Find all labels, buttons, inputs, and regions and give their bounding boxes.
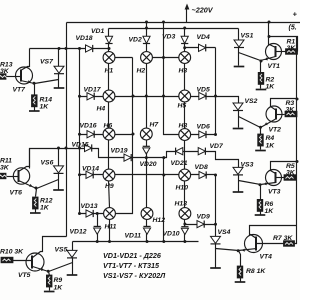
wire VT4 emitter — [239, 249, 257, 251]
wire H11 to bottom bus — [109, 220, 111, 242]
wire VS5 cathode — [72, 258, 74, 275]
node VD10 bus — [183, 240, 186, 243]
svg-text:VD15: VD15 — [72, 142, 89, 149]
lamp H8 — [179, 129, 191, 141]
wire R6 ground lead — [260, 212, 262, 215]
wire VD17 row — [80, 96, 104, 98]
diode VD16 — [87, 131, 94, 138]
svg-text:VD21: VD21 — [171, 160, 188, 167]
lamp H3 — [179, 52, 191, 64]
svg-text:VD18: VD18 — [76, 35, 93, 42]
diode VD14 — [86, 171, 93, 178]
wire H9-H11 — [109, 181, 110, 208]
lamp H4 — [103, 90, 115, 102]
thyristor VS5 — [67, 250, 77, 258]
wire VD9 row — [185, 224, 216, 226]
node VT2 emitter junction — [259, 126, 262, 129]
wire left distribution bus — [79, 49, 81, 214]
wire bottom return bus — [73, 241, 199, 243]
wire second feed bus — [109, 28, 239, 30]
svg-text:R10 3K: R10 3K — [0, 249, 24, 256]
svg-text:1K: 1K — [40, 205, 50, 212]
wire VS1 cathode — [238, 48, 240, 66]
wire VS7 gate — [35, 80, 59, 84]
wire R12 ground lead — [35, 209, 37, 213]
node VT3 emitter junction — [259, 183, 262, 186]
wire VD10 to bus — [184, 234, 186, 242]
svg-text:H4: H4 — [97, 106, 106, 113]
transistor VT2 — [266, 106, 282, 122]
wire jog to VD21-VD7 row — [147, 152, 239, 168]
wire VS3 gate — [239, 181, 261, 185]
node VT7 emitter junction — [33, 82, 36, 85]
svg-text:H11: H11 — [105, 224, 117, 231]
wire H4-H5 row link — [115, 96, 179, 98]
thyristor VS3 — [233, 167, 243, 175]
diode VD8 — [199, 171, 206, 178]
node VS7 anode junction — [58, 47, 61, 50]
svg-text:H13: H13 — [175, 201, 188, 208]
lamp H7 — [140, 128, 152, 140]
lamp H13 — [179, 208, 191, 220]
ground R6 — [255, 214, 266, 216]
wire VT7 emitter — [21, 81, 35, 84]
wire H6 right — [115, 134, 133, 136]
wire VD2-H2 — [146, 44, 148, 53]
wire VD3-H3 — [184, 44, 186, 53]
wire VD2 feed — [146, 29, 148, 37]
node VT1 emitter junction — [260, 60, 263, 63]
node VD6 end — [214, 133, 217, 136]
wire VS6 gate — [37, 180, 59, 189]
ground R8 — [235, 281, 246, 283]
thyristor VS2 — [233, 103, 243, 111]
lamp H1 — [103, 52, 115, 64]
wire VT2 emitter — [261, 119, 277, 128]
node H6 right junction — [132, 133, 135, 136]
wire VD14 row — [80, 174, 104, 176]
diode VD5 — [199, 92, 206, 99]
resistor R14 — [32, 95, 38, 107]
lamp H5 — [179, 90, 191, 102]
wire VD4 row — [185, 47, 216, 49]
svg-text:H7: H7 — [150, 121, 160, 128]
diode VD21 — [176, 148, 183, 155]
node VD16 tap — [78, 133, 81, 136]
wire VT4 collector — [250, 226, 297, 239]
svg-text:+: + — [293, 10, 298, 19]
ground R9 — [44, 291, 55, 293]
svg-text:3K: 3K — [287, 45, 297, 52]
wire VS3 cathode — [238, 175, 240, 192]
wire H4-H6 — [108, 102, 110, 129]
svg-text:VD1-VD21 - Д226: VD1-VD21 - Д226 — [103, 251, 162, 260]
node row2 crossing — [132, 95, 135, 98]
svg-text:VD19: VD19 — [111, 148, 128, 155]
resistor R10 — [1, 257, 13, 263]
wire R2 lead — [260, 61, 262, 73]
thyristor VS7 — [54, 66, 64, 74]
wire R14 ground lead — [34, 107, 36, 111]
wire VS4 cathode — [215, 244, 217, 268]
wire H12 top — [146, 158, 148, 208]
wire R1 loop — [269, 37, 298, 52]
transistor VT7 — [16, 67, 33, 84]
wire top 220V bus — [67, 22, 301, 24]
node VD13 tap — [78, 212, 81, 215]
wire VD16 row — [80, 134, 104, 136]
wire left frame edge — [66, 23, 68, 237]
node VD12 top — [96, 212, 99, 215]
node VS6 anode tap — [57, 147, 60, 150]
node VD12 bus — [96, 240, 99, 243]
diode VD15 — [85, 144, 92, 151]
svg-text:VD14: VD14 — [82, 166, 99, 173]
ground R12 — [30, 212, 41, 214]
ground VS7 — [54, 87, 65, 89]
thyristor VS6 — [54, 166, 64, 174]
wire VD20 to junction — [146, 153, 148, 158]
resistor R5 — [284, 175, 296, 181]
svg-text:~220V: ~220V — [192, 6, 214, 15]
ground VS6 — [53, 189, 64, 191]
node VD14 tap — [78, 173, 81, 176]
wire VD11 to bus — [146, 234, 148, 242]
wire VT5 collector — [33, 237, 67, 258]
thyristor VS4 — [211, 236, 221, 244]
resistor R4 — [258, 134, 264, 146]
svg-text:H10: H10 — [176, 185, 189, 192]
svg-text:VS1: VS1 — [241, 33, 254, 40]
diode VD7 — [198, 148, 205, 155]
node VT1 collector bus — [268, 21, 271, 24]
wire R9 ground lead — [49, 287, 51, 291]
svg-text:VD2: VD2 — [129, 37, 142, 44]
wire VT3 base — [276, 177, 285, 179]
wire VS2 cathode — [238, 111, 240, 128]
ground VS5 — [67, 274, 78, 276]
svg-text:VD16: VD16 — [80, 123, 97, 130]
wire mid bus — [164, 23, 179, 135]
svg-text:VT3: VT3 — [268, 189, 281, 196]
transistor VT3 — [266, 170, 282, 186]
svg-text:VD6: VD6 — [197, 124, 210, 131]
node VD9 tap — [183, 223, 186, 226]
svg-text:VT7: VT7 — [13, 87, 27, 94]
wire VD1-H1 — [108, 44, 110, 53]
svg-text:1K: 1K — [54, 285, 64, 292]
node H7 feed — [145, 95, 148, 98]
wire right-of-A vertical — [116, 58, 133, 214]
node frame crossing — [65, 47, 68, 50]
wire R6 lead — [260, 185, 262, 200]
wire H7 bottom — [146, 140, 148, 147]
~220V supply arrow — [186, 7, 188, 23]
svg-text:VS1-VS7 - КУ202Л: VS1-VS7 - КУ202Л — [103, 271, 166, 280]
wire VD5 junction to VS2 — [216, 97, 239, 103]
diode VD11 — [143, 226, 150, 234]
wire VS5 gate — [49, 263, 73, 272]
svg-text:R12: R12 — [40, 198, 53, 205]
wire H13 down — [184, 220, 186, 227]
lamp H12 — [141, 208, 153, 220]
svg-text:VD8: VD8 — [195, 164, 208, 171]
svg-text:VD10: VD10 — [163, 231, 180, 238]
ground VS1 — [234, 66, 245, 68]
wire R12 lead — [36, 189, 37, 197]
wire VD6 row — [191, 134, 216, 136]
node VD5 junction — [214, 95, 217, 98]
diode VD6 — [199, 131, 206, 138]
diode VD2 — [143, 36, 150, 43]
wire VS1 anode — [238, 29, 240, 41]
wire VD4 drop to VS2 bus — [215, 48, 217, 135]
wire VD1 feed — [108, 29, 110, 37]
wire H3-H5 — [184, 64, 186, 91]
node VD8 corner — [214, 174, 217, 177]
wire VD15-VT6 collector row — [30, 149, 147, 169]
diode VD12 — [94, 226, 101, 234]
diode VD1 — [105, 36, 112, 43]
wire H8-H10 — [184, 141, 186, 170]
svg-text:3K: 3K — [286, 107, 296, 114]
wire VD3 feed — [184, 29, 186, 37]
node mid bus row1 — [162, 56, 165, 59]
wire VD13 row — [80, 213, 104, 215]
node VT4 emitter junction — [237, 249, 240, 252]
node mid bus row2 — [162, 95, 165, 98]
wire VS6 cathode — [58, 174, 60, 190]
wire VT6 emitter — [19, 181, 37, 189]
node R5 rail junction — [296, 160, 299, 163]
wire H9-H10 row link — [115, 174, 179, 176]
wire VT1 base — [276, 51, 286, 53]
wire VS4 gate — [216, 249, 239, 251]
diode VD18 — [86, 45, 93, 52]
lamp H9 — [103, 169, 115, 181]
svg-text:R7 3K: R7 3K — [273, 235, 293, 242]
resistor R2 — [258, 72, 264, 84]
transistor VT1 — [266, 44, 282, 60]
svg-text:VS3: VS3 — [241, 162, 254, 169]
svg-text:R11: R11 — [0, 158, 12, 165]
lamp H10 — [179, 169, 191, 181]
svg-text:VD13: VD13 — [81, 203, 98, 210]
wire VT5 base — [13, 260, 33, 262]
wire rail right — [296, 37, 298, 226]
diode VD4 — [199, 44, 206, 51]
svg-text:VD7: VD7 — [210, 143, 224, 150]
transistor VT6 — [13, 168, 29, 184]
resistor R9 — [46, 275, 52, 287]
node VT6 emitter junction — [35, 187, 38, 190]
node H1 top — [108, 47, 111, 50]
wire H2 down — [146, 64, 148, 97]
svg-text:VT6: VT6 — [10, 190, 23, 197]
wire VT6 collector — [19, 149, 30, 172]
svg-text:VT1: VT1 — [268, 63, 281, 70]
ground R14 — [29, 110, 40, 112]
wire VT2 base — [277, 114, 285, 116]
node left bus top — [78, 47, 81, 50]
node R3 rail junction — [296, 98, 299, 101]
node bus junction VD2 — [145, 27, 148, 30]
svg-text:(5.: (5. — [289, 25, 297, 32]
diode VD9 — [197, 221, 204, 228]
transistor VT4 — [245, 235, 263, 253]
wire H6-H9 — [108, 140, 110, 170]
wire VD12 to bus — [97, 234, 99, 242]
node mid drop bus — [162, 240, 165, 243]
wire R14 lead — [34, 84, 36, 95]
wire mid drop to bottom bus — [163, 158, 165, 242]
wire VT4 base — [257, 243, 284, 245]
wire VT7 base — [6, 76, 21, 78]
node R1 loop junction — [268, 35, 271, 38]
wire H7 top — [146, 97, 148, 129]
wire R9 lead — [49, 272, 50, 276]
node row4 crossing — [162, 174, 165, 177]
wire R8 ground lead — [240, 278, 242, 282]
svg-text:VS4: VS4 — [218, 229, 231, 236]
resistor R13 — [0, 74, 7, 80]
wire VD8 drop to VS4 — [215, 175, 217, 237]
lamp H11 — [104, 208, 116, 220]
wire bus1-bus2 link — [146, 23, 148, 29]
svg-text:3K: 3K — [0, 165, 10, 172]
svg-text:VS6: VS6 — [41, 160, 54, 167]
wire VT7 collector to VD18 row — [30, 48, 109, 50]
wire H2-H3 row link — [153, 57, 179, 59]
wire VT3 collector — [271, 162, 297, 174]
lamp H6 — [103, 128, 115, 140]
wire R8 lead — [239, 251, 241, 267]
resistor R7 — [284, 241, 295, 247]
svg-text:1K: 1K — [266, 143, 276, 150]
ground VS4 — [210, 267, 221, 269]
resistor R12 — [33, 197, 39, 209]
svg-text:VD5: VD5 — [197, 87, 210, 94]
svg-text:H9: H9 — [105, 183, 114, 190]
diode VD17 — [87, 93, 94, 100]
diode VD13 — [86, 210, 93, 217]
diode VD10 — [181, 227, 188, 235]
wire VD12 tap — [97, 214, 99, 227]
node frame VD15 junction — [65, 147, 68, 150]
wire R7 drop — [295, 226, 297, 244]
wire VT3 emitter — [261, 183, 276, 185]
svg-text:VT1-VT7 - КТ315: VT1-VT7 - КТ315 — [103, 261, 160, 270]
svg-text:VD9: VD9 — [197, 214, 210, 221]
wire VT2 collector — [271, 99, 297, 111]
node bus junction VD3 — [183, 27, 186, 30]
svg-text:R2: R2 — [266, 77, 275, 84]
lamp H2 — [141, 52, 153, 64]
diode VD3 — [181, 36, 188, 43]
node H3 top — [183, 46, 186, 49]
svg-text:H2: H2 — [137, 68, 146, 75]
resistor R1 — [286, 49, 298, 55]
svg-text:VS5: VS5 — [55, 247, 68, 254]
svg-text:VD11: VD11 — [125, 233, 142, 240]
wire VS5 anode — [72, 242, 74, 251]
ground R4 — [255, 150, 266, 152]
wire VD8 row — [191, 174, 216, 176]
node VD17 tap — [78, 95, 81, 98]
wire H10-H13 — [184, 181, 186, 208]
wire R4 ground lead — [260, 146, 262, 150]
wire H1 right — [115, 57, 133, 59]
svg-text:VS7: VS7 — [40, 59, 54, 66]
wire VS7 cathode — [58, 74, 60, 88]
svg-text:VD17: VD17 — [84, 87, 102, 94]
wire R4 lead — [260, 128, 262, 135]
node VD11 bus — [146, 240, 149, 243]
svg-text:VT4: VT4 — [260, 254, 273, 261]
svg-text:R6: R6 — [265, 201, 274, 208]
svg-text:VT5: VT5 — [18, 272, 31, 279]
node mid bus top — [162, 21, 165, 24]
resistor R6 — [257, 199, 263, 211]
svg-text:3K: 3K — [286, 170, 296, 177]
svg-text:R14: R14 — [40, 97, 53, 104]
diode VD19 — [124, 154, 131, 161]
wire H5-H8 — [184, 102, 186, 129]
node H11 bus — [108, 240, 111, 243]
svg-text:VD1: VD1 — [91, 28, 104, 35]
wire VS1 gate — [239, 53, 261, 61]
wire H12 bottom — [146, 220, 148, 227]
ground VS3 — [233, 191, 244, 193]
wire VT1 collector — [269, 23, 276, 48]
resistor R8 — [237, 266, 243, 278]
svg-text:H3: H3 — [179, 68, 188, 75]
wire VS2 gate — [239, 117, 261, 128]
svg-text:1K: 1K — [266, 84, 276, 91]
svg-text:VS2: VS2 — [245, 98, 258, 105]
node VD19-VD20 junction — [145, 156, 148, 159]
svg-text:H6: H6 — [104, 122, 113, 129]
wire VS6 anode — [58, 149, 60, 166]
node VD9 junction — [214, 223, 217, 226]
node VT5 emitter junction — [47, 270, 50, 273]
thyristor VS1 — [234, 40, 244, 48]
svg-text:H8: H8 — [179, 122, 188, 129]
svg-text:R8 1K: R8 1K — [246, 268, 266, 275]
svg-text:VD12: VD12 — [70, 229, 87, 236]
svg-text:VD20: VD20 — [140, 161, 157, 168]
ground R2 — [256, 89, 267, 91]
resistor R3 — [285, 111, 297, 117]
ground VS2 — [233, 128, 244, 130]
wire VD5 row — [191, 96, 216, 98]
svg-text:R9: R9 — [54, 277, 63, 284]
transistor VT5 — [26, 253, 44, 271]
wire VT5 emitter — [33, 267, 49, 272]
wire VT6 base — [6, 176, 19, 178]
node left bus VD15 tap — [78, 147, 81, 150]
wire H1-H4 — [108, 64, 110, 91]
wire R2 ground lead — [260, 85, 262, 89]
resistor R11 — [0, 173, 7, 179]
svg-text:R4: R4 — [266, 135, 275, 142]
wire VS7 anode — [58, 49, 60, 67]
svg-text:VD4: VD4 — [197, 34, 210, 41]
svg-text:VT2: VT2 — [269, 127, 282, 134]
wire VT1 emitter — [261, 57, 276, 61]
diode VD20 — [143, 146, 150, 154]
svg-text:1K: 1K — [265, 208, 275, 215]
